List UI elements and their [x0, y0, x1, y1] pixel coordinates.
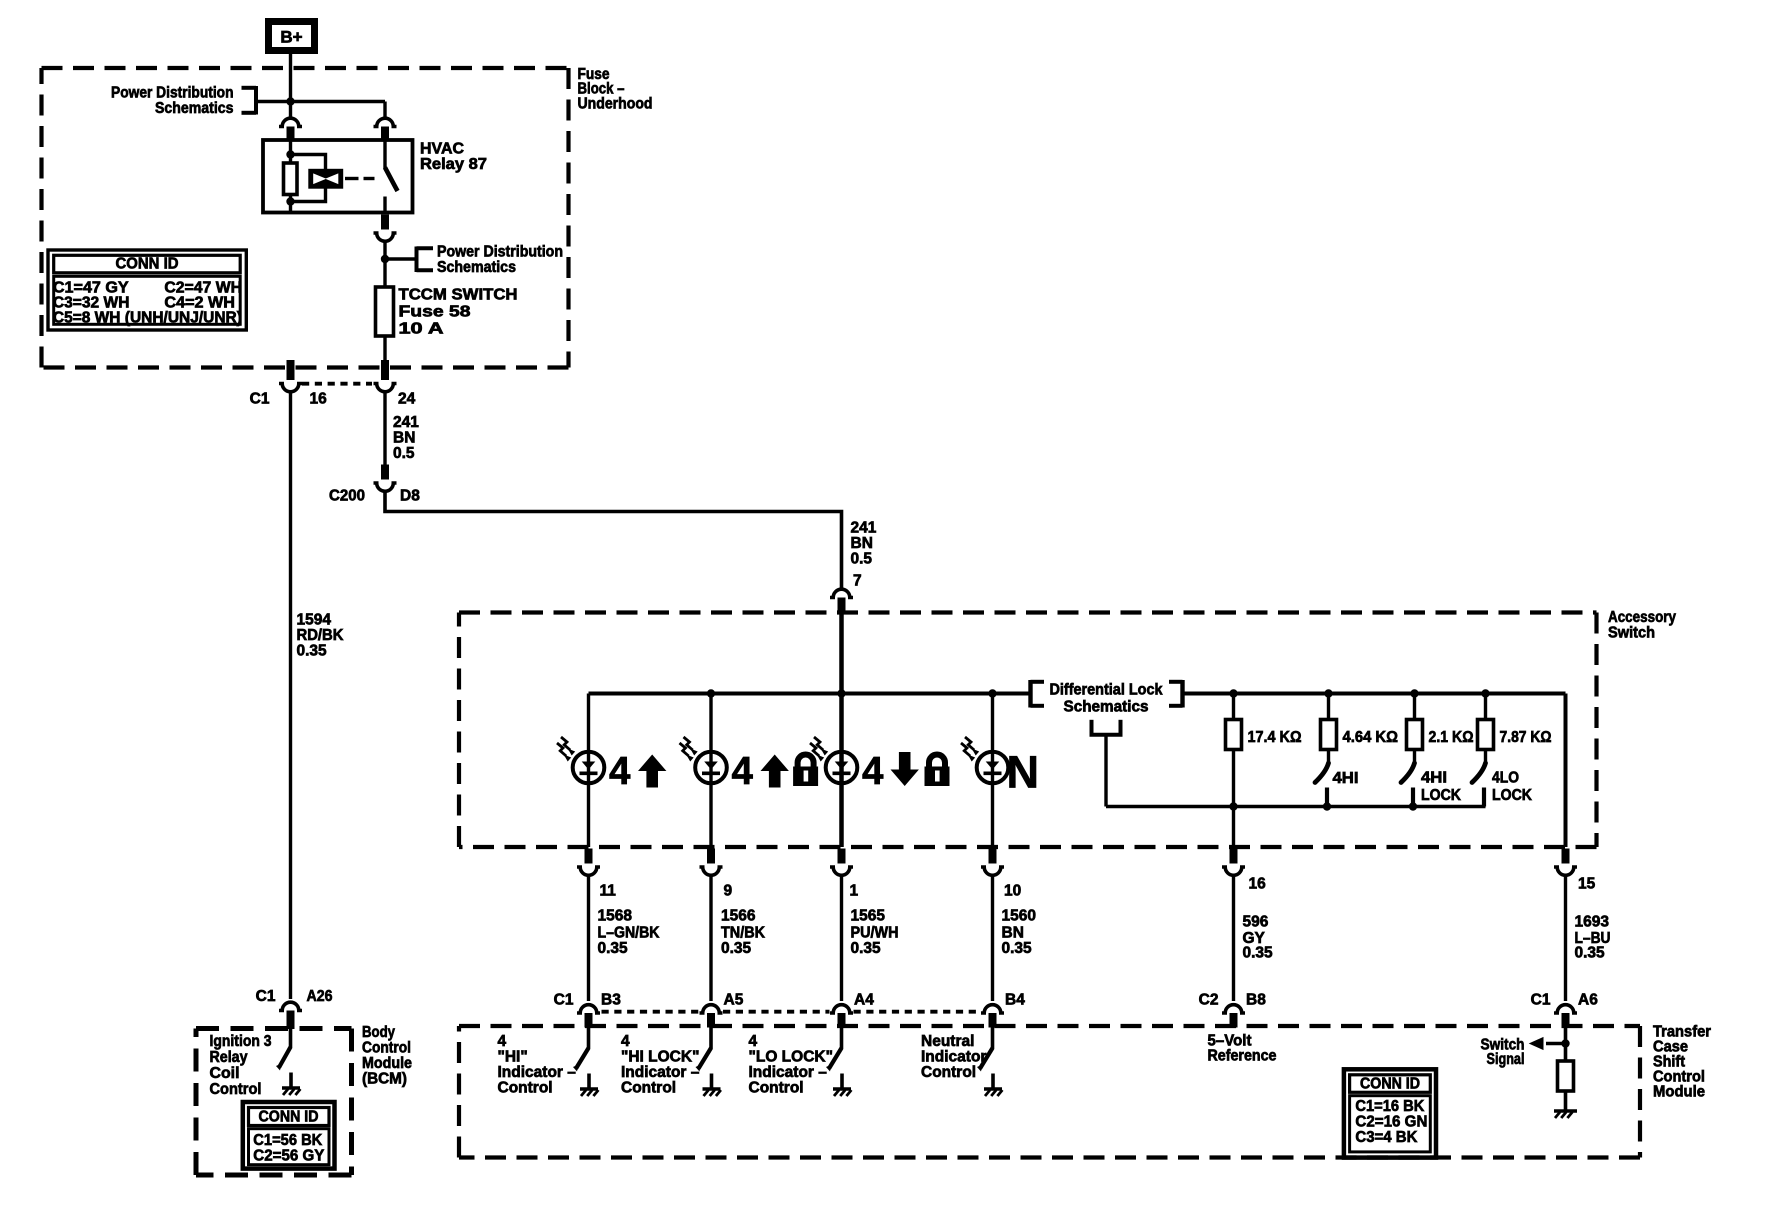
ground (transfer case)	[1554, 1091, 1577, 1118]
bracket differential lock left	[1031, 680, 1045, 708]
wire bus to resistor 2.1 KΩ	[1413, 694, 1416, 720]
svg-text:Control: Control	[749, 1080, 804, 1097]
labels A5	[724, 992, 744, 1009]
driver blade at x=841.5	[826, 1028, 842, 1072]
label 4.64 KΩ	[1343, 729, 1399, 746]
svg-text:7.87 KΩ: 7.87 KΩ	[1500, 729, 1552, 746]
svg-text:RD/BK: RD/BK	[297, 627, 345, 644]
svg-text:N: N	[1007, 747, 1040, 798]
svg-text:C1=16 BK: C1=16 BK	[1355, 1098, 1425, 1115]
wire main feed inside accessory switch	[839, 612, 844, 694]
accessory switch box	[459, 613, 1597, 848]
connector 11 exit	[577, 849, 600, 876]
svg-text:0.5: 0.5	[393, 445, 415, 462]
svg-text:1568: 1568	[598, 908, 633, 925]
bus wire lower	[1106, 805, 1486, 809]
svg-text:TN/BK: TN/BK	[721, 925, 766, 942]
svg-text:4HI: 4HI	[1421, 770, 1447, 787]
svg-text:0.35: 0.35	[1002, 940, 1033, 957]
svg-text:B+: B+	[280, 28, 302, 47]
bracket to Power Distribution Schematics (top left)	[242, 86, 291, 115]
node relay coil top	[286, 150, 294, 158]
connector B3 into module	[577, 1005, 600, 1028]
connector relay pin 86 (coil +)	[279, 118, 302, 140]
svg-text:Ignition 3: Ignition 3	[210, 1033, 272, 1050]
label 7	[853, 573, 862, 590]
svg-text:0.35: 0.35	[1575, 945, 1606, 962]
switch 4HI LOCK top stub	[1413, 750, 1416, 764]
svg-text:4: 4	[749, 1033, 758, 1050]
connector 10 exit	[981, 849, 1004, 876]
svg-text:0.35: 0.35	[1243, 945, 1274, 962]
label 4HI LOCK	[1421, 770, 1462, 805]
label A26	[307, 988, 333, 1005]
switch 4LO LOCK bottom stub	[1482, 788, 1486, 807]
svg-text:Indicator –: Indicator –	[749, 1064, 828, 1081]
svg-text:L–GN/BK: L–GN/BK	[598, 925, 661, 942]
svg-text:16: 16	[310, 391, 328, 408]
LED3 indicator	[810, 737, 857, 783]
wire relay coil top	[289, 140, 292, 163]
node junction at fuse top	[381, 255, 389, 263]
svg-text:Reference: Reference	[1208, 1048, 1277, 1065]
label 4 (LED2)	[732, 750, 754, 793]
connector C1-16 exit	[279, 360, 302, 392]
node bus at LED2	[707, 689, 715, 697]
connector B4 into module	[981, 1005, 1004, 1028]
svg-text:Control: Control	[921, 1064, 976, 1081]
wire 17.4K through lower bus to conn 16	[1232, 750, 1235, 848]
node bus at 17.4 KΩ	[1229, 689, 1237, 697]
svg-text:"HI": "HI"	[498, 1049, 528, 1066]
svg-text:(BCM): (BCM)	[362, 1071, 407, 1088]
connector 9 exit	[700, 849, 723, 876]
relay mechanical link dashes	[345, 177, 375, 180]
label 10	[1004, 883, 1021, 900]
wire junction down to relay coil terminal	[289, 102, 292, 119]
label 4 (LED1)	[609, 750, 631, 793]
resistor 2.1 KΩ	[1407, 720, 1423, 750]
label C200	[329, 488, 365, 505]
wire relay coil bottom	[289, 195, 292, 213]
transfer case shift control module box	[459, 1026, 1640, 1158]
svg-text:B3: B3	[601, 992, 621, 1009]
driver blade at x=711	[696, 1028, 712, 1072]
svg-text:Schematics: Schematics	[155, 100, 234, 117]
wire to module connector	[1564, 874, 1567, 1001]
svg-text:Accessory: Accessory	[1608, 609, 1676, 626]
svg-text:LOCK: LOCK	[1492, 787, 1533, 804]
ground at x=992.5	[984, 1074, 1002, 1097]
relay HVAC Relay 87 box	[263, 140, 413, 213]
wire bus to resistor 4.64 KΩ	[1327, 694, 1330, 720]
label TCCM SWITCH Fuse 58 10 A	[399, 287, 518, 338]
wire 1594 RD/BK	[289, 393, 292, 999]
label C1	[250, 391, 270, 408]
resistor 7.87 KΩ	[1478, 720, 1494, 750]
svg-text:C3=4 BK: C3=4 BK	[1355, 1129, 1418, 1146]
svg-text:15: 15	[1578, 876, 1596, 893]
svg-text:4.64 KΩ: 4.64 KΩ	[1343, 729, 1399, 746]
svg-text:Module: Module	[362, 1055, 412, 1072]
wire to fuse	[383, 240, 386, 287]
svg-text:Control: Control	[362, 1040, 411, 1057]
label D8	[400, 488, 420, 505]
svg-text:C1: C1	[250, 391, 270, 408]
svg-text:Switch: Switch	[1608, 625, 1655, 642]
resistor 4.64 KΩ	[1321, 720, 1337, 750]
fuse block - underhood box	[42, 68, 569, 368]
node bus at LED4	[988, 689, 996, 697]
svg-text:0.35: 0.35	[598, 940, 629, 957]
svg-text:C5=8 WH (UNH/UNJ/UNR): C5=8 WH (UNH/UNJ/UNR)	[53, 310, 242, 327]
svg-text:1565: 1565	[851, 908, 886, 925]
connector A6 into module	[1554, 1005, 1577, 1028]
lock icon (LED2)	[793, 755, 818, 787]
svg-text:4: 4	[498, 1033, 507, 1050]
ground at x=711	[703, 1074, 721, 1097]
wire fork to lower bus	[1104, 735, 1107, 807]
svg-text:4HI: 4HI	[1333, 770, 1359, 787]
label N (LED4)	[1007, 747, 1040, 798]
svg-text:A5: A5	[724, 992, 744, 1009]
svg-text:Fuse 58: Fuse 58	[399, 304, 471, 321]
bracket differential lock right	[1169, 680, 1183, 708]
label 16	[1249, 876, 1267, 893]
ground at x=841.5	[833, 1074, 851, 1097]
svg-text:A6: A6	[1578, 992, 1598, 1009]
dotted connector line B3-A5	[602, 1010, 700, 1014]
svg-text:1566: 1566	[721, 908, 756, 925]
LED4 indicator	[961, 737, 1008, 783]
B+ power symbol	[269, 22, 315, 51]
wire junction to relay switch terminal	[291, 102, 386, 119]
svg-text:0.35: 0.35	[721, 940, 752, 957]
svg-text:Coil: Coil	[210, 1065, 240, 1082]
label 1594 RD/BK 0.35	[297, 612, 345, 660]
ground (BCM)	[282, 1073, 300, 1096]
node bus at 4.64 KΩ	[1324, 689, 1332, 697]
svg-text:Power Distribution: Power Distribution	[111, 85, 234, 102]
relay switch contact bottom	[383, 197, 386, 213]
svg-text:4: 4	[621, 1033, 630, 1050]
wire B+ to junction	[289, 54, 292, 102]
switch 4HI bottom stub	[1325, 788, 1329, 807]
label 7.87 KΩ	[1500, 729, 1552, 746]
svg-text:HVAC: HVAC	[420, 141, 464, 158]
connector A5 into module	[700, 1005, 723, 1028]
connector C200-D8	[374, 465, 397, 492]
labels C1 B3	[554, 992, 622, 1009]
svg-text:1560: 1560	[1002, 908, 1036, 925]
label 241 BN 0.5 (lower)	[851, 520, 877, 568]
connector 1 exit	[830, 849, 853, 876]
relay switch blade	[385, 168, 398, 192]
svg-text:PU/WH: PU/WH	[851, 925, 899, 942]
wire to module connector	[1232, 874, 1235, 1001]
wire fuse to connector 24	[383, 336, 386, 361]
switch signal arrow	[1529, 1037, 1566, 1050]
svg-text:C1: C1	[256, 988, 276, 1005]
svg-text:C2: C2	[1199, 992, 1219, 1009]
label Power Distribution Schematics (top left)	[111, 85, 234, 118]
label 1568 L-GN/BK 0.35	[598, 908, 661, 958]
connector 15 exit	[1554, 849, 1577, 876]
svg-text:C1=56 BK: C1=56 BK	[253, 1132, 323, 1149]
svg-text:596: 596	[1243, 914, 1269, 931]
node lower bus at 4HI LOCK	[1409, 802, 1417, 810]
label C1 (BCM)	[256, 988, 276, 1005]
svg-text:A26: A26	[307, 988, 333, 1005]
connector C1-A26 into BCM	[279, 1002, 302, 1029]
svg-text:1: 1	[850, 883, 859, 900]
switch 4HI LOCK bottom stub	[1411, 788, 1415, 807]
LED2 indicator	[680, 737, 727, 783]
label Fuse Block - Underhood	[578, 66, 653, 112]
label 17.4 KΩ	[1248, 729, 1302, 746]
label 4LO LOCK	[1492, 770, 1533, 805]
svg-text:11: 11	[600, 883, 617, 900]
svg-text:4LO: 4LO	[1492, 770, 1519, 787]
label 1693 L-BU 0.35	[1575, 914, 1611, 962]
connector B8 into module	[1222, 1005, 1245, 1028]
svg-text:C1: C1	[1531, 992, 1551, 1009]
svg-text:9: 9	[724, 883, 733, 900]
label "LO LOCK" indicator control	[749, 1033, 833, 1097]
svg-text:Underhood: Underhood	[578, 95, 653, 112]
label 15	[1578, 876, 1596, 893]
svg-text:Schematics: Schematics	[1064, 699, 1149, 716]
svg-text:241: 241	[851, 520, 877, 537]
svg-text:10 A: 10 A	[399, 321, 444, 338]
resistor (transfer case)	[1558, 1061, 1574, 1091]
node switch signal tap	[1561, 1039, 1569, 1047]
svg-text:BN: BN	[851, 535, 873, 552]
svg-text:B4: B4	[1005, 992, 1025, 1009]
svg-text:C2=56 GY: C2=56 GY	[253, 1148, 325, 1165]
fuse TCCM SWITCH Fuse 58	[376, 287, 394, 336]
svg-text:Relay 87: Relay 87	[420, 156, 487, 173]
node junction below B+	[286, 97, 294, 105]
wire 241 BN from 24	[383, 393, 386, 465]
node lower bus at 4HI	[1323, 802, 1331, 810]
svg-text:Indicator –: Indicator –	[498, 1064, 577, 1081]
svg-text:B8: B8	[1246, 992, 1266, 1009]
node relay coil bottom	[286, 197, 294, 205]
svg-text:16: 16	[1249, 876, 1267, 893]
connector 7 into accessory switch	[830, 589, 853, 614]
label 24	[398, 391, 416, 408]
svg-text:Control: Control	[498, 1080, 553, 1097]
LED1 indicator	[557, 737, 604, 783]
dotted connector line A5-A4	[723, 1010, 830, 1014]
svg-text:4: 4	[732, 750, 754, 793]
switch 4HI top stub	[1327, 750, 1330, 764]
ground at x=588.5	[580, 1074, 598, 1097]
label Ignition 3 Relay Coil Control	[210, 1033, 272, 1098]
label 11	[600, 883, 617, 900]
up arrow (LED2)	[761, 755, 789, 788]
BCM driver blade	[276, 1029, 291, 1071]
label 1565 PU/WH 0.35	[851, 908, 899, 958]
svg-text:Control: Control	[621, 1080, 676, 1097]
CONN ID table (fuse block)	[48, 250, 246, 330]
svg-text:0.35: 0.35	[851, 940, 882, 957]
svg-text:Indicator: Indicator	[921, 1049, 986, 1066]
svg-text:Neutral: Neutral	[921, 1033, 974, 1050]
svg-text:C2=16 GN: C2=16 GN	[1355, 1114, 1427, 1131]
label Body Control Module (BCM)	[362, 1024, 412, 1088]
relay coil winding	[284, 163, 298, 195]
svg-text:2.1 KΩ: 2.1 KΩ	[1429, 729, 1474, 746]
labels C2 B8	[1199, 992, 1267, 1009]
svg-text:24: 24	[398, 391, 416, 408]
label 1560 BN 0.35	[1002, 908, 1036, 958]
label 5-Volt Reference	[1208, 1033, 1277, 1065]
switch 4HI LOCK blade	[1401, 763, 1415, 783]
bus wire upper	[589, 692, 1566, 696]
svg-text:10: 10	[1004, 883, 1021, 900]
wire to module connector	[587, 874, 590, 1001]
resistor 17.4 KΩ	[1226, 720, 1242, 750]
label 2.1 KΩ	[1429, 729, 1474, 746]
label 4 (LED3)	[862, 750, 884, 793]
label 16	[310, 391, 328, 408]
svg-text:CONN ID: CONN ID	[116, 255, 179, 272]
connector A4 into module	[830, 1005, 853, 1028]
relay switch contact top	[383, 140, 386, 169]
svg-text:CONN ID: CONN ID	[259, 1109, 319, 1126]
wire bus to resistor 17.4 KΩ	[1232, 694, 1235, 720]
wire bus to LED3 to connector	[839, 694, 844, 848]
driver blade at x=992.5	[977, 1028, 993, 1072]
svg-text:241: 241	[393, 414, 419, 431]
labels A4	[854, 992, 874, 1009]
label 9	[724, 883, 733, 900]
switch 4LO LOCK top stub	[1484, 750, 1487, 764]
svg-text:A4: A4	[854, 992, 874, 1009]
wire bus to LED4 to connector	[991, 694, 994, 848]
svg-text:Differential Lock: Differential Lock	[1050, 682, 1163, 699]
wire to module connector	[840, 874, 843, 1001]
svg-text:4: 4	[609, 750, 631, 793]
labels B4	[1005, 992, 1025, 1009]
driver blade at x=588.5	[573, 1028, 589, 1072]
svg-text:Control: Control	[210, 1081, 262, 1098]
wire C200 to accessory switch	[385, 490, 842, 591]
dotted connector line A4-B4	[854, 1010, 982, 1014]
svg-text:TCCM SWITCH: TCCM SWITCH	[399, 287, 518, 304]
svg-text:BN: BN	[1002, 925, 1024, 942]
svg-text:C1: C1	[554, 992, 574, 1009]
lock icon (LED3)	[925, 755, 950, 787]
label Transfer Case Shift Control Module	[1653, 1024, 1711, 1101]
label 1	[850, 883, 859, 900]
node bus at main feed	[837, 689, 845, 697]
relay coil parallel loop	[291, 155, 326, 202]
switch 4HI blade	[1315, 763, 1329, 783]
svg-text:1693: 1693	[1575, 914, 1610, 931]
svg-text:1594: 1594	[297, 612, 332, 629]
connector 16 exit	[1222, 849, 1245, 876]
node bus at 7.87 KΩ	[1481, 689, 1489, 697]
node lower bus at 17.4K	[1229, 802, 1237, 810]
label Power Distribution Schematics (mid)	[437, 244, 563, 277]
label Accessory Switch	[1608, 609, 1676, 642]
wire right side down	[1564, 694, 1568, 848]
svg-text:C200: C200	[329, 488, 365, 505]
labels C1 A6	[1531, 992, 1599, 1009]
bracket to Power Distribution Schematics (right)	[385, 247, 433, 273]
label "HI LOCK" indicator control	[621, 1033, 700, 1097]
label "HI" indicator control	[498, 1033, 577, 1097]
BCM box	[196, 1029, 352, 1176]
svg-text:Schematics: Schematics	[437, 259, 516, 276]
svg-text:"HI LOCK": "HI LOCK"	[621, 1049, 699, 1066]
svg-text:Module: Module	[1653, 1084, 1705, 1101]
wire bus to LED2 to connector	[709, 694, 712, 848]
connector relay pin 30	[374, 118, 397, 140]
wire to module connector	[709, 874, 712, 1001]
svg-text:17.4 KΩ: 17.4 KΩ	[1248, 729, 1302, 746]
svg-text:CONN ID: CONN ID	[1360, 1075, 1420, 1092]
svg-text:Body: Body	[362, 1024, 395, 1041]
svg-text:"LO LOCK": "LO LOCK"	[749, 1049, 833, 1066]
wire to module connector	[991, 874, 994, 1001]
label 596 GY 0.35	[1243, 914, 1274, 962]
relay coil X-box	[310, 171, 342, 188]
svg-text:7: 7	[853, 573, 862, 590]
svg-text:Signal: Signal	[1487, 1051, 1525, 1068]
svg-text:0.35: 0.35	[297, 643, 328, 660]
up arrow (LED1)	[638, 755, 666, 788]
svg-text:0.5: 0.5	[851, 551, 873, 568]
connector below relay	[374, 215, 397, 242]
switch 4LO LOCK blade	[1472, 763, 1486, 783]
dotted connector line C1-16 to 24	[302, 382, 372, 386]
label Neutral indicator control	[921, 1033, 986, 1081]
label 1566 TN/BK 0.35	[721, 908, 766, 958]
CONN ID table (transfer case)	[1344, 1069, 1436, 1157]
node bus at 2.1 KΩ	[1410, 689, 1418, 697]
svg-text:4: 4	[862, 750, 884, 793]
label Switch Signal	[1481, 1037, 1525, 1069]
label 241 BN 0.5 (upper)	[393, 414, 419, 462]
label Differential Lock Schematics	[1050, 682, 1163, 716]
CONN ID table (BCM)	[243, 1102, 335, 1169]
svg-text:BN: BN	[393, 430, 415, 447]
down arrow (LED3)	[891, 752, 919, 786]
wire A6 into module	[1564, 1028, 1568, 1062]
svg-text:D8: D8	[400, 488, 420, 505]
wire bus to resistor 7.87 KΩ	[1484, 694, 1487, 720]
wire bus to LED1 to connector	[587, 694, 590, 848]
connector 24 exit	[374, 360, 397, 392]
svg-text:Power Distribution: Power Distribution	[437, 244, 563, 261]
svg-text:Indicator –: Indicator –	[621, 1064, 700, 1081]
label HVAC Relay 87	[420, 141, 487, 174]
fork to differential lock schematics	[1090, 720, 1123, 735]
svg-text:Relay: Relay	[210, 1049, 248, 1066]
label 4HI	[1333, 770, 1359, 787]
svg-text:LOCK: LOCK	[1421, 787, 1462, 804]
